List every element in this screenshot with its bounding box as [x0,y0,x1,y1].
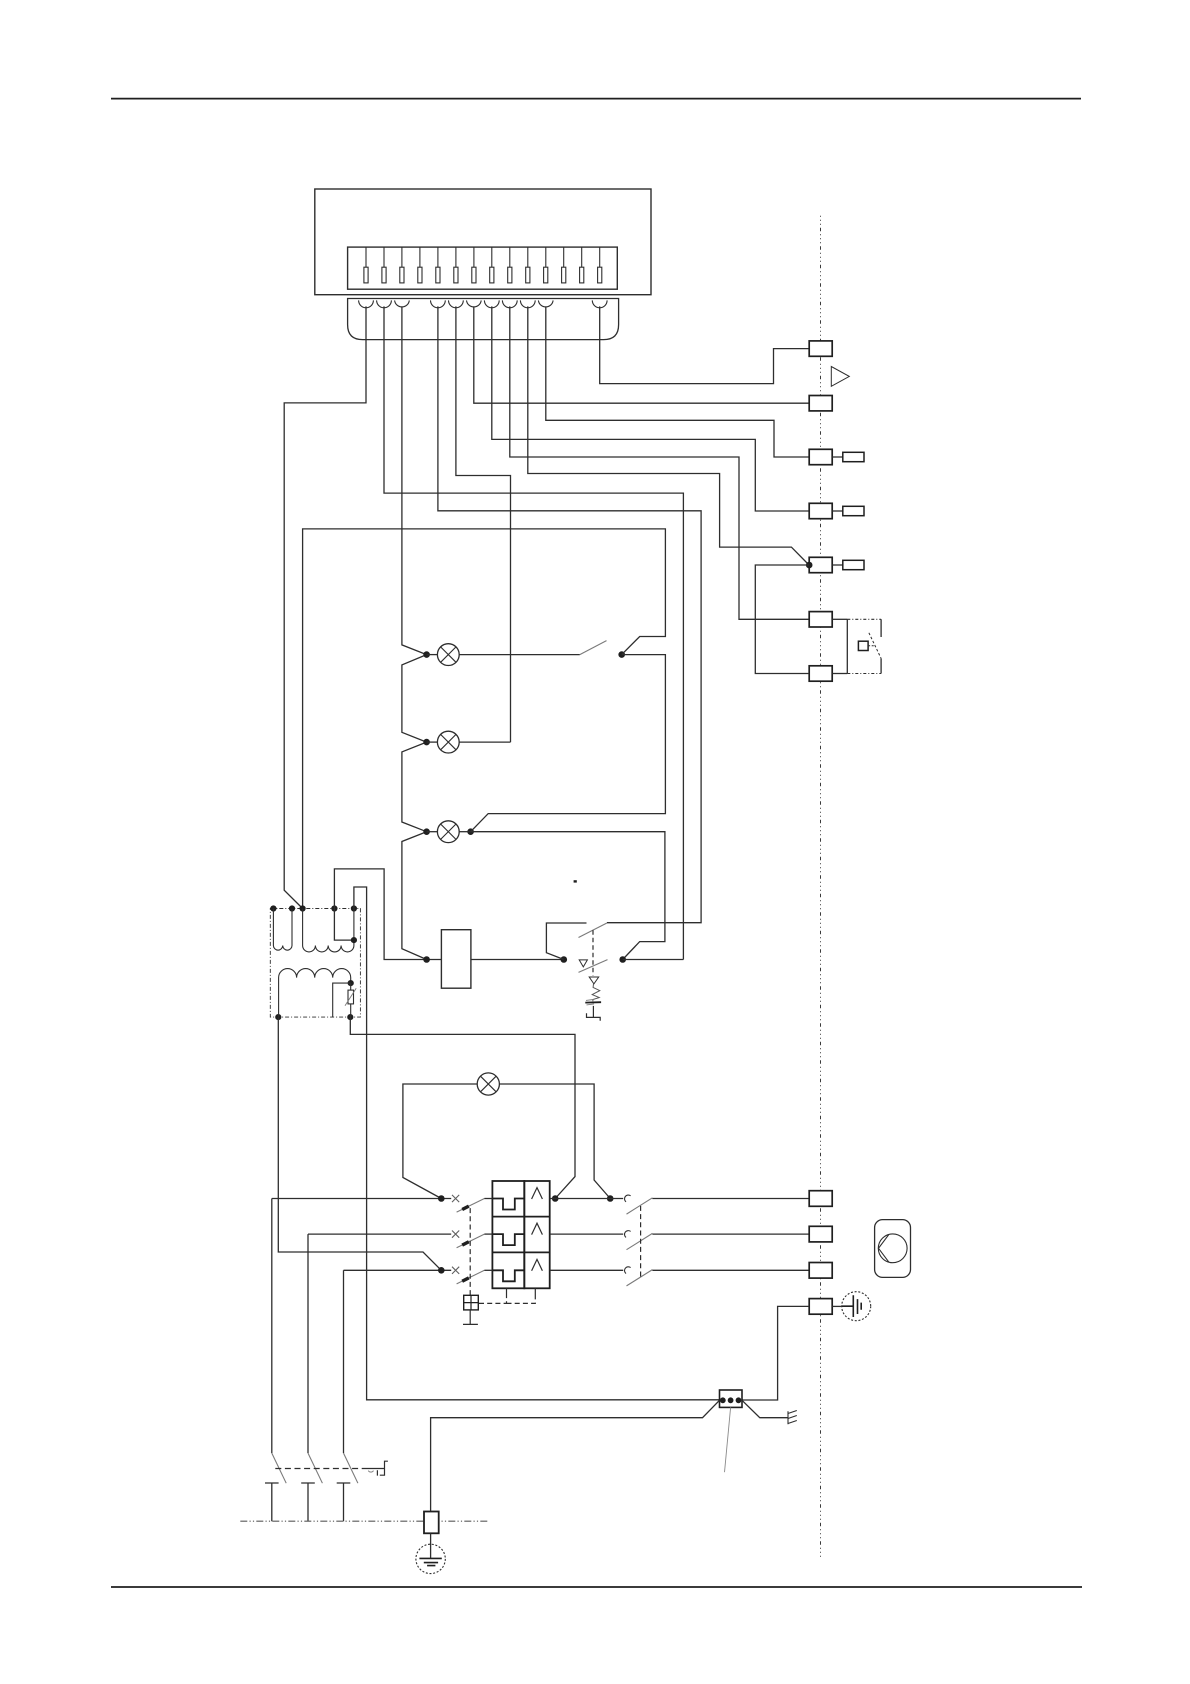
heater element 3 [492,1270,524,1281]
chassis bus [240,1520,487,1522]
top border rule [111,98,1081,100]
wire w6 [474,306,809,403]
secondary branch [333,983,351,1017]
S2 blade upper [579,923,607,938]
overload chevron 3 [532,1259,543,1270]
winding tap [334,909,354,941]
wire H3 right link [459,831,470,833]
wire X6 right [832,618,847,620]
contactor blade K3 [457,1270,485,1284]
node H1 left [423,651,430,658]
socket contact 11 [592,300,607,307]
socket contact 10 [538,300,553,307]
wire H1 left link [427,654,438,656]
node H3 left [423,828,430,835]
earth terminal circle [832,1305,842,1307]
wire H3 left link [427,831,438,833]
main switch linkage [275,1468,366,1470]
fixed contact 1 [265,1483,279,1521]
S2 release triangle [579,960,587,967]
pin 6 [455,247,457,267]
wire row2 left [308,1233,451,1235]
plug terminal 4a [832,510,843,512]
lamp H4 [477,1073,499,1095]
pin 2 [383,247,385,267]
wire X7 right [832,673,847,675]
primary winding A [273,909,292,951]
wire row1 left [272,1198,451,1200]
socket contact 1 [359,300,374,307]
wire w5 [456,306,511,742]
pin 7 [473,247,475,267]
control module box X1 [315,189,651,295]
block bottom stubs [507,1288,536,1294]
node S2 output [619,956,626,963]
contact socket 3 [625,1267,631,1274]
pin 9 [509,247,511,267]
wire row3 to contact [550,1269,624,1271]
wire H4 left [403,1084,477,1199]
wire w9 [528,306,809,565]
terminal X8 [809,1191,832,1207]
wire H3 to S2 contact [471,832,665,960]
contactor blade K1 [457,1199,485,1213]
overload chevron 2 [532,1223,543,1234]
actuator triangle [589,977,599,984]
transformer bottom node 2 [347,1014,353,1020]
pin 14 [599,247,601,267]
pin 4 [419,247,421,267]
node coil left [423,956,430,963]
earth block tail [725,1407,731,1472]
wire pole3 down [343,1270,345,1453]
contact socket 2 [625,1231,631,1238]
transformer top node 5 [351,905,357,911]
wire H2 right [459,741,510,743]
reset button [464,1295,479,1310]
wire PE to earth block [431,1400,720,1511]
wire w10 [546,306,809,457]
contact blade 1 [627,1198,653,1214]
main switch blade 1 [272,1453,286,1483]
terminal X7 [809,666,832,681]
wire contact 1 to terminal [652,1198,809,1200]
wire contact 3 to terminal [652,1269,809,1271]
clamp mark 1 [452,1195,459,1202]
fixed contact 2 [301,1483,315,1521]
terminal X10 [809,1263,832,1279]
node at terminal X5 [806,562,813,569]
node S1 [618,651,625,658]
wire secondary left down [278,1017,441,1270]
pressure switch frame [846,619,848,673]
plug terminal 5a [832,564,843,566]
overload block F1 [492,1181,524,1288]
transformer top node 4 [331,905,337,911]
pin 1 [365,247,367,267]
contact socket 1 [625,1195,631,1202]
secondary node [348,980,354,986]
main switch blade 3 [344,1453,358,1483]
wire w4 [438,306,701,922]
trip linkage [479,1295,535,1304]
wire T5 to earth block [354,887,720,1400]
pressure switch blade [869,633,881,659]
pin 10 [527,247,529,267]
contact linkage [640,1206,642,1277]
left blade linkage [469,1208,471,1295]
wire secondary right down [350,1017,575,1198]
wire earth block to chassis [742,1400,788,1417]
pin 13 [581,247,583,267]
PE earth symbol [430,1533,432,1558]
stray mark [574,880,577,882]
pressure switch actuator [858,641,868,650]
socket contact 5 [449,300,464,307]
actuator release bar [585,1001,601,1003]
pin 11 [545,247,547,267]
transformer top node 1 [270,905,276,911]
lamp H1 [437,644,459,666]
node row1 b [607,1195,614,1202]
socket contact 6 [467,300,482,307]
wire S1 to H3 upper [471,655,666,832]
contactor blade K2 [457,1234,485,1248]
wire X5 to X7 [755,565,809,674]
wire row1 to contact [550,1198,624,1200]
pump M1 [875,1220,911,1278]
wire earth to X11 [740,1306,809,1400]
S2 upper contact arm [546,923,586,960]
wire row2 to contact [550,1233,624,1235]
transformer bottom node 1 [275,1014,281,1020]
wire H2 left link [427,741,438,743]
PE terminal [424,1512,439,1534]
pin 3 [401,247,403,267]
node row3 left [438,1267,445,1274]
node S2 common [561,956,568,963]
terminal X2 [809,396,832,411]
wire H1 output [459,654,580,656]
terminal X6 [809,612,832,627]
socket contact 4 [431,300,446,307]
overload chevron 1 [532,1188,543,1199]
coil Y1 [441,930,471,989]
socket contact 9 [520,300,535,307]
wire pole2 down [307,1234,309,1453]
terminal X9 [809,1226,832,1242]
wire pole1 down [271,1199,273,1454]
wire feed from T3 [303,529,666,909]
earth junction block [720,1390,743,1407]
wire w2 [384,306,683,959]
wire S2 output right [623,959,684,961]
lamp H3 [437,821,459,843]
terminal X11 [809,1299,832,1315]
socket contact 8 [502,300,517,307]
node H3 right [467,828,474,835]
transformer top node 2 [289,905,295,911]
wire w8 [510,306,809,619]
varistor R1 [350,983,352,1017]
socket contact 7 [484,300,499,307]
wire coil right [471,959,564,961]
reset stem [463,1310,478,1325]
clamp mark 3 [452,1267,459,1274]
transformer top node 3 [300,905,306,911]
edge connector body [348,299,619,340]
switch S1 blade [580,641,607,655]
wire H4 right [499,1084,610,1199]
wire w11 [600,306,810,383]
heater element 2 [492,1234,524,1245]
clamp mark 2 [452,1231,459,1238]
socket contact 2 [377,300,392,307]
node row1 a [552,1195,559,1202]
plug terminal 3a [832,456,843,458]
contact blade 3 [627,1270,653,1286]
wire contact 2 to terminal [652,1233,809,1235]
terminal strip [348,247,618,289]
lamp H2 [437,731,459,753]
heater element 1 [492,1199,524,1210]
terminal X5 [809,557,832,572]
actuator bracket [587,1006,601,1021]
chassis mark [788,1411,797,1425]
fixed contact 3 [337,1483,351,1521]
main switch blade 2 [308,1453,322,1483]
primary winding B [303,909,354,952]
wire w7 [492,306,809,511]
wire T4 to coil [334,869,441,960]
handle symbol [366,1461,388,1475]
actuator spring [592,984,600,1001]
wire w3 [402,306,427,959]
bus dash-dot line [820,216,822,1557]
S2 blade lower [579,960,608,973]
wire w1 [284,306,366,908]
pin 8 [491,247,493,267]
node row1 left [438,1195,445,1202]
buzzer triangle [831,367,849,387]
socket contact 3 [395,300,410,307]
node H2 left [423,739,430,746]
earth block nodes [720,1397,726,1403]
S2 linkage [592,930,594,975]
transformer enclosure [270,909,360,1018]
terminal X3 [809,449,832,464]
pin 12 [563,247,565,267]
contact blade 2 [627,1233,653,1249]
pin 5 [437,247,439,267]
terminal X1 [809,341,832,356]
secondary winding [279,969,351,1018]
terminal X4 [809,503,832,518]
bottom border rule [111,1586,1082,1588]
wire row3 left [344,1269,452,1271]
